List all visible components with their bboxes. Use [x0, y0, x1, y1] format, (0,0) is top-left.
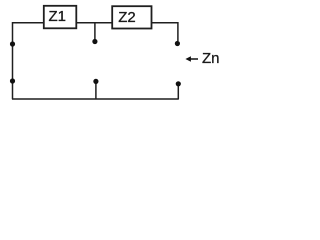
- svg-text:Z1: Z1: [48, 8, 66, 25]
- svg-text:Zn: Zn: [202, 50, 220, 67]
- svg-text:Z2: Z2: [118, 9, 136, 26]
